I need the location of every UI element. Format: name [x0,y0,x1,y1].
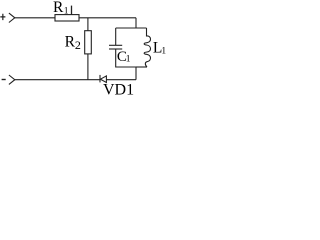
wire mid stub horizontal [116,27,147,29]
plus terminal label [0,14,5,20]
resistor R2 [85,31,92,54]
wire inductor bottom stub [136,66,147,68]
svg-text:1: 1 [64,6,69,16]
resistor R1 [55,15,79,21]
label R2 [65,33,81,52]
svg-text:1: 1 [161,46,166,56]
label VD1 [103,82,134,99]
input arrow top [9,13,15,22]
svg-text:VD1: VD1 [103,82,134,98]
svg-text:1: 1 [126,55,131,65]
label R1 [53,0,69,16]
wire top rail right [79,17,136,19]
wire bottom rail left [15,79,100,81]
svg-text:R: R [53,0,64,16]
label C1 [117,49,131,65]
wire capacitor top lead [115,28,117,45]
label L1 [153,39,167,56]
wire right branch down [135,67,137,80]
wire corner down to mid stub [135,18,137,28]
wire bottom rail right [106,79,136,81]
diode VD1 [100,75,106,83]
inductor L1 [144,28,150,67]
wire R2 bottom [87,54,89,80]
wire top rail left [15,17,55,19]
input arrow bottom [9,75,15,84]
wire R2 top [87,18,89,31]
capacitor C1 [109,45,122,49]
svg-text:2: 2 [75,38,81,52]
minus terminal label [2,79,6,81]
power-rating tick on R1 [71,6,73,15]
wire capacitor bottom lead [116,49,136,67]
